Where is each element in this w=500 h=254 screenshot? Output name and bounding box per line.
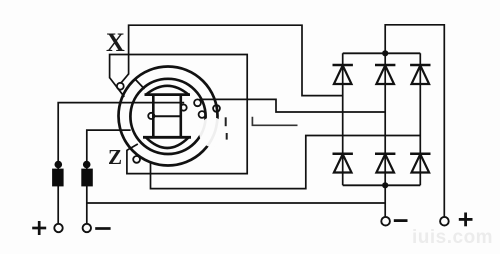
- terminal circle field +: [54, 224, 62, 232]
- label Z: [108, 145, 122, 170]
- wire: lower brush to inner ring: [87, 130, 131, 224]
- bridge bottom rail: [343, 184, 421, 186]
- wire: upper brush to rotor winding: [58, 103, 184, 224]
- wire: X' diagonal to outer ring: [110, 78, 125, 97]
- diode D2 top: [375, 65, 395, 84]
- diode D6 bottom: [410, 154, 430, 173]
- stator outer ring: [119, 67, 218, 166]
- wire: phase 2 staircase to leg 2: [200, 99, 386, 112]
- watermark stub vertical 1: [225, 117, 227, 126]
- stator tap bump C: [199, 111, 206, 118]
- terminal circle field -: [83, 224, 91, 232]
- bridge leg 3: [419, 53, 421, 185]
- rotor winding bump right: [181, 105, 187, 111]
- watermark stub L: [252, 117, 297, 126]
- diode D3 top: [410, 65, 430, 84]
- slip-ring tap bump near X: [117, 83, 124, 90]
- rotor coil body: [153, 95, 181, 138]
- label X: [106, 28, 125, 58]
- wire: Z diagonal: [127, 144, 138, 150]
- wire: minus output drop: [384, 185, 386, 217]
- label minus (output): [394, 219, 408, 222]
- brush (field -): [81, 161, 93, 187]
- wire: lower brush to output minus: [87, 202, 386, 204]
- junction dot bottom: [382, 182, 388, 188]
- bridge leg 2: [384, 53, 386, 185]
- label plus (output): [459, 213, 473, 227]
- wire: X top run to bridge leg 1: [129, 25, 343, 95]
- watermark smudge left: [199, 117, 225, 147]
- bridge top rail: [343, 52, 421, 54]
- terminal circle output -: [381, 217, 390, 226]
- junction dot top: [382, 50, 388, 56]
- stator tap bump A: [194, 99, 201, 106]
- diode D1 top: [333, 65, 353, 84]
- watermark text: [412, 227, 493, 249]
- diode D5 bottom: [375, 154, 395, 173]
- stator tap bump B: [213, 105, 220, 112]
- diode D4 bottom: [333, 154, 353, 173]
- label minus (left): [95, 227, 110, 230]
- rotor bottom pole shoe: [143, 137, 191, 148]
- wire: X'-Z loop: [110, 55, 248, 174]
- slip-ring tap bump near Z: [133, 156, 140, 163]
- bridge leg 1: [342, 53, 344, 185]
- stator inner ring: [130, 79, 205, 154]
- rotor winding bump left: [148, 113, 154, 119]
- brush (field +): [52, 161, 64, 187]
- rotor top pole shoe: [145, 86, 191, 95]
- wire: X lead diagonal to tap bump: [121, 74, 129, 84]
- label plus (left): [32, 221, 46, 235]
- watermark stub vertical 2: [226, 133, 228, 140]
- terminal circle output +: [440, 217, 449, 226]
- wire: phase 3 run to leg 3: [151, 136, 421, 189]
- wire: plus output run: [385, 25, 444, 217]
- spoke upper-left between rings: [135, 79, 145, 90]
